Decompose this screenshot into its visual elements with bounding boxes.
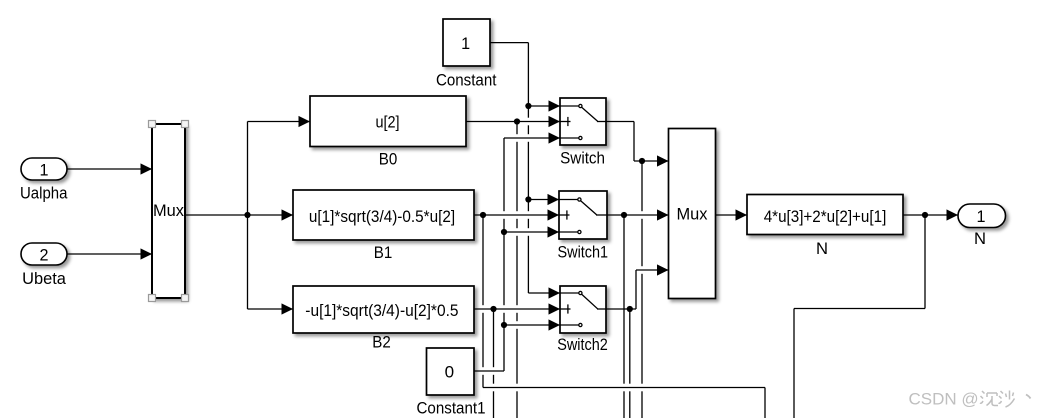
fcn block B1 xyxy=(293,190,474,240)
node - zero line junction at Switch1 xyxy=(501,229,507,235)
watermark CSDN xyxy=(909,390,1031,409)
wire - zero to Switch2 input 3 xyxy=(504,319,560,330)
node - B2 output junction xyxy=(490,306,496,312)
svg-text:Switch: Switch xyxy=(560,148,605,167)
wire - Switch2 output branch down x=631 xyxy=(629,309,631,418)
node - B1 output junction xyxy=(480,212,486,218)
svg-text:2: 2 xyxy=(40,246,49,265)
svg-text:B1: B1 xyxy=(374,243,393,262)
svg-text:1: 1 xyxy=(40,161,49,180)
wire - zero to Switch1 input 3 xyxy=(504,226,559,237)
label Constant xyxy=(436,71,497,90)
wire - Mux output branch vertical x=248 xyxy=(247,122,249,310)
svg-text:N: N xyxy=(816,239,828,258)
wire - Constant output xyxy=(490,42,528,44)
node - Switch2 output junction xyxy=(627,306,633,312)
svg-text:Mux: Mux xyxy=(153,201,184,220)
svg-text:4*u[3]+2*u[2]+u[1]: 4*u[3]+2*u[2]+u[1] xyxy=(764,207,887,226)
label Ualpha xyxy=(20,184,68,203)
inport 1 Ualpha xyxy=(21,158,67,180)
wire - long bottom horizontal xyxy=(483,387,765,389)
switch Switch2 xyxy=(560,286,606,333)
wire - branch to B0 xyxy=(248,116,311,127)
wire - B1 output branch down x=483 xyxy=(482,215,484,388)
wire - Switch2 output elbow xyxy=(606,308,636,310)
outport 1 N xyxy=(958,204,1006,228)
wire - N block output to outport xyxy=(903,209,958,220)
svg-text:Constant: Constant xyxy=(436,71,497,90)
selection handles xyxy=(149,121,189,302)
wire - Constant1 output to zero line xyxy=(474,370,504,372)
wire - B1 output to Switch1 xyxy=(474,209,559,220)
svg-text:Ualpha: Ualpha xyxy=(20,184,68,203)
wire - Mux1 output to N block xyxy=(716,209,748,220)
mux Mux (selected) xyxy=(152,124,185,298)
mux Mux1 (combiner) xyxy=(669,129,716,299)
wire - far right drop x=765 xyxy=(764,388,766,418)
wire - B2 output branch down x=494 xyxy=(493,309,495,418)
node - zero line junction at Switch2 xyxy=(501,322,507,328)
wire - N branch drop x=794 xyxy=(793,309,795,418)
wire - one to Switch1 input 1 xyxy=(528,194,559,205)
label B1 xyxy=(374,243,393,262)
svg-text:CSDN @: CSDN @ xyxy=(909,390,979,409)
label Switch1 xyxy=(558,242,609,261)
label N outport xyxy=(974,229,986,248)
wire - Mux output to B1 xyxy=(185,209,293,220)
wire - N output branch vertical x=925 xyxy=(924,215,926,309)
label Constant1 xyxy=(417,399,486,418)
wire - Switch2 output elbow vertical x=636 xyxy=(635,270,637,309)
fcn block B0 u[2] xyxy=(310,96,466,147)
wire - Ubeta to Mux xyxy=(67,248,152,259)
svg-text:B2: B2 xyxy=(372,333,391,352)
switch Switch1 xyxy=(559,191,607,239)
svg-text:1: 1 xyxy=(461,34,470,53)
wire - Constant one distribution vertical x=528 xyxy=(527,43,529,293)
wire crossing gaps xyxy=(481,118,644,392)
wire - Switch1 output to Mux input 2 xyxy=(607,209,669,220)
wire - Switch output branch down x=642 xyxy=(641,161,643,418)
svg-text:-u[1]*sqrt(3/4)-u[2]*0.5: -u[1]*sqrt(3/4)-u[2]*0.5 xyxy=(305,301,458,320)
svg-text:u[2]: u[2] xyxy=(375,113,399,132)
wire - N branch horizontal xyxy=(794,308,925,310)
svg-text:Constant1: Constant1 xyxy=(417,399,486,418)
svg-text:Ubeta: Ubeta xyxy=(22,269,66,288)
wire - Switch output elbow xyxy=(606,121,634,123)
wire - one to Switch input 1 xyxy=(528,100,560,111)
constant block Constant value 1 xyxy=(443,19,490,66)
label Switch2 xyxy=(557,335,608,354)
svg-text:0: 0 xyxy=(445,362,455,381)
svg-text:Switch2: Switch2 xyxy=(557,335,608,354)
node - Mux output junction xyxy=(244,212,250,218)
wire - Ualpha to Mux xyxy=(67,163,152,174)
label B2 xyxy=(372,333,391,352)
wire - Switch1 output branch down x=624 xyxy=(623,215,625,418)
node - N output junction xyxy=(922,212,928,218)
node - Switch output junction xyxy=(639,158,645,164)
wire - B0 output to Switch xyxy=(466,116,560,127)
constant block Constant1 value 0 xyxy=(427,348,475,395)
wire - Switch output to Mux input 1 xyxy=(634,155,669,166)
wire - Switch2 output to Mux input 3 xyxy=(636,264,669,275)
node - one line junction at Switch xyxy=(525,103,531,109)
fcn block B2 xyxy=(293,286,474,333)
wire - B0 output branch down x=517 xyxy=(516,122,518,418)
switch Switch xyxy=(560,98,606,145)
wire - zero to Switch input 3 xyxy=(504,132,560,143)
label B0 xyxy=(379,150,398,169)
svg-text:Switch1: Switch1 xyxy=(558,242,609,261)
node - one line junction at Switch1 xyxy=(525,196,531,202)
svg-text:B0: B0 xyxy=(379,150,398,169)
node - B0 output junction xyxy=(514,118,520,124)
svg-text:Mux: Mux xyxy=(677,205,708,224)
svg-text:u[1]*sqrt(3/4)-0.5*u[2]: u[1]*sqrt(3/4)-0.5*u[2] xyxy=(309,207,455,226)
label Switch xyxy=(560,148,605,167)
wire - branch to B2 xyxy=(248,303,294,314)
inport 2 Ubeta xyxy=(21,243,67,265)
label Ubeta xyxy=(22,269,66,288)
svg-text:1: 1 xyxy=(977,207,986,226)
wire - B2 output to Switch2 xyxy=(474,303,560,314)
svg-text:N: N xyxy=(974,229,986,248)
wire - Constant1 zero distribution vertical x=504 xyxy=(503,138,505,371)
fcn block N expression xyxy=(747,195,903,235)
label N xyxy=(816,239,828,258)
wire - Switch output elbow vertical x=634 xyxy=(633,122,635,162)
node - Switch1 output junction xyxy=(621,212,627,218)
wire - one to Switch2 input 1 xyxy=(528,287,560,298)
